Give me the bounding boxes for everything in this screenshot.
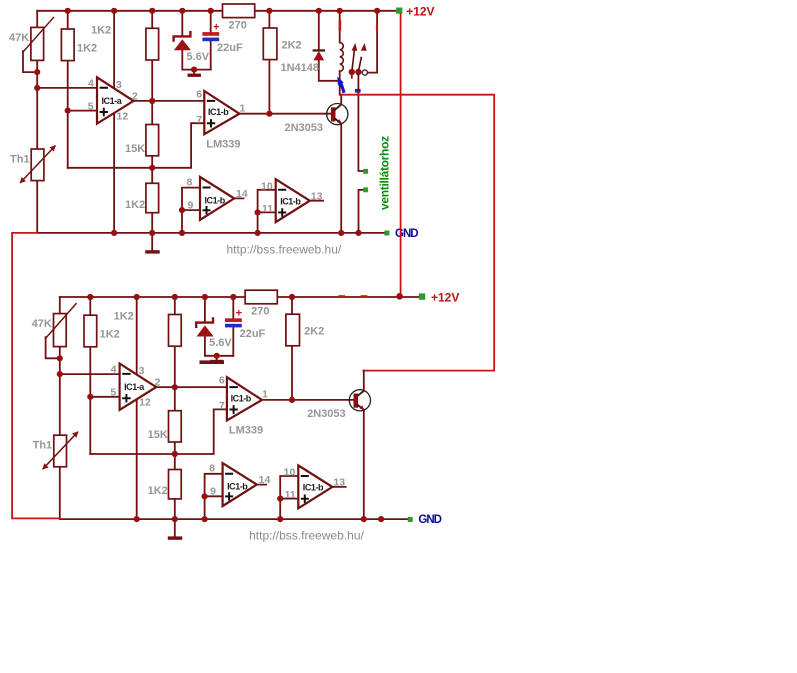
svg-text:+12V: +12V: [406, 5, 434, 19]
svg-text:+12V: +12V: [431, 291, 459, 305]
svg-text:1N4148: 1N4148: [281, 62, 320, 74]
svg-text:GND: GND: [395, 228, 418, 240]
svg-text:ventillátorhoz: ventillátorhoz: [378, 136, 392, 210]
svg-text:GND: GND: [418, 514, 441, 526]
